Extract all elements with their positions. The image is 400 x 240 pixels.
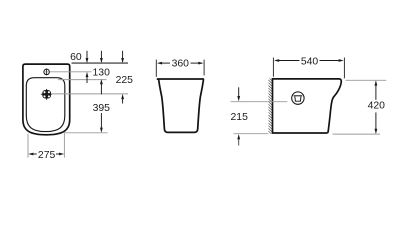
reference line E (front edge level) — [64, 132, 108, 134]
reference line D (drain level) — [52, 93, 129, 95]
dim 420 — [333, 80, 387, 134]
svg-text:395: 395 — [93, 103, 111, 114]
svg-text:225: 225 — [116, 75, 134, 86]
inner bowl outline — [26, 78, 65, 132]
outer rim outline — [23, 64, 70, 135]
dim 215 — [231, 87, 288, 145]
dim 60 arrows — [86, 51, 89, 83]
svg-text:130: 130 — [93, 67, 111, 78]
wall hatching — [269, 79, 272, 134]
side body outline — [273, 79, 342, 133]
svg-text:275: 275 — [38, 150, 56, 161]
svg-text:420: 420 — [368, 101, 386, 112]
reference line B (faucet level) — [50, 71, 92, 73]
reference line C (bowl top level) — [58, 79, 107, 81]
pedestal outline — [157, 79, 204, 132]
dim 225 arrows — [121, 51, 124, 104]
svg-text:540: 540 — [301, 56, 319, 67]
svg-text:215: 215 — [231, 112, 249, 123]
faucet hole symbol — [43, 69, 50, 76]
reference line A (back edge level) — [72, 62, 129, 64]
dim 540 — [273, 56, 344, 78]
svg-text:60: 60 — [70, 52, 82, 63]
svg-text:360: 360 — [172, 58, 190, 69]
dim 360 — [156, 58, 204, 77]
outlet circle symbol — [292, 92, 304, 104]
dim 130 arrows — [100, 51, 103, 94]
dim 395 bottom arrow — [100, 113, 103, 133]
drain symbol — [41, 89, 52, 100]
dim 275 — [28, 133, 64, 161]
